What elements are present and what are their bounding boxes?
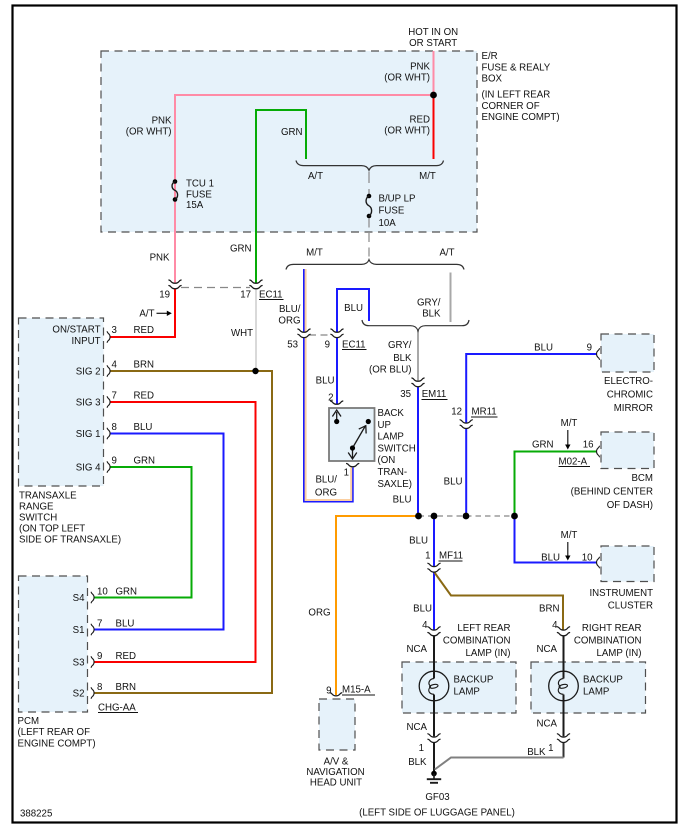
svg-text:SIG 1: SIG 1 xyxy=(76,429,101,440)
svg-text:SAXLE): SAXLE) xyxy=(378,479,412,490)
svg-text:HOT IN ON: HOT IN ON xyxy=(408,27,458,38)
svg-text:S4: S4 xyxy=(73,593,85,604)
svg-text:2: 2 xyxy=(328,393,333,404)
svg-text:35: 35 xyxy=(400,389,411,400)
svg-text:ELECTRO-: ELECTRO- xyxy=(604,376,653,387)
svg-text:BRN: BRN xyxy=(116,682,136,693)
svg-text:LAMP (IN): LAMP (IN) xyxy=(596,648,641,659)
svg-text:SWITCH: SWITCH xyxy=(19,513,57,524)
svg-text:SWITCH: SWITCH xyxy=(378,443,416,454)
svg-text:CHROMIC: CHROMIC xyxy=(607,389,653,400)
svg-text:COMBINATION: COMBINATION xyxy=(443,635,511,646)
svg-text:A/T: A/T xyxy=(308,171,323,182)
svg-text:RIGHT REAR: RIGHT REAR xyxy=(582,623,642,634)
svg-text:HEAD UNIT: HEAD UNIT xyxy=(310,778,362,789)
svg-text:S2: S2 xyxy=(73,689,85,700)
svg-text:GRN: GRN xyxy=(116,587,138,598)
svg-text:BLU: BLU xyxy=(116,619,135,630)
svg-text:17: 17 xyxy=(240,290,251,301)
svg-text:4: 4 xyxy=(552,620,558,631)
svg-text:CLUSTER: CLUSTER xyxy=(608,601,653,612)
svg-text:9: 9 xyxy=(326,686,331,697)
svg-text:MIRROR: MIRROR xyxy=(614,403,653,414)
svg-text:7: 7 xyxy=(97,619,102,630)
svg-text:SIG 4: SIG 4 xyxy=(76,463,101,474)
svg-text:OF DASH): OF DASH) xyxy=(607,500,653,511)
svg-text:WHT: WHT xyxy=(231,328,253,339)
svg-text:(OR BLU): (OR BLU) xyxy=(369,365,412,376)
svg-text:M/T: M/T xyxy=(419,171,436,182)
svg-text:GRN: GRN xyxy=(532,440,554,451)
svg-text:4: 4 xyxy=(422,620,428,631)
svg-text:M/T: M/T xyxy=(561,530,578,541)
svg-text:GRN: GRN xyxy=(230,244,252,255)
svg-text:CORNER OF: CORNER OF xyxy=(482,101,540,112)
svg-text:(BEHIND CENTER: (BEHIND CENTER xyxy=(571,486,653,497)
svg-text:M/T: M/T xyxy=(561,418,578,429)
svg-text:53: 53 xyxy=(287,340,298,351)
svg-text:CHG-AA: CHG-AA xyxy=(98,703,136,714)
svg-text:E/R: E/R xyxy=(482,51,498,62)
svg-text:10: 10 xyxy=(97,587,108,598)
svg-text:S1: S1 xyxy=(73,625,85,636)
svg-text:4: 4 xyxy=(112,360,118,371)
svg-text:EC11: EC11 xyxy=(342,340,366,351)
svg-text:NCA: NCA xyxy=(537,719,558,730)
svg-text:OR START: OR START xyxy=(409,38,457,49)
svg-text:9: 9 xyxy=(325,340,330,351)
svg-text:388225: 388225 xyxy=(20,809,52,820)
svg-text:BLK: BLK xyxy=(527,747,546,758)
svg-text:LAMP: LAMP xyxy=(583,686,609,697)
svg-text:BACKUP: BACKUP xyxy=(454,674,494,685)
svg-text:BCM: BCM xyxy=(631,473,653,484)
svg-text:9: 9 xyxy=(97,651,102,662)
svg-text:PCM: PCM xyxy=(18,716,40,727)
svg-text:EM11: EM11 xyxy=(422,389,447,400)
svg-text:UP: UP xyxy=(378,420,391,431)
svg-text:BRN: BRN xyxy=(134,360,154,371)
svg-text:SIG 2: SIG 2 xyxy=(76,367,101,378)
svg-text:GRN: GRN xyxy=(281,127,303,138)
svg-text:(LEFT SIDE OF LUGGAGE PANEL): (LEFT SIDE OF LUGGAGE PANEL) xyxy=(359,808,515,819)
svg-text:RED: RED xyxy=(116,651,136,662)
svg-text:ON/START: ON/START xyxy=(52,324,100,335)
svg-text:8: 8 xyxy=(97,682,102,693)
svg-text:BLK: BLK xyxy=(422,309,441,320)
svg-text:15A: 15A xyxy=(186,200,204,211)
svg-text:(ON TOP LEFT: (ON TOP LEFT xyxy=(19,524,85,535)
svg-text:TRANSAXLE: TRANSAXLE xyxy=(19,491,77,502)
svg-text:(LEFT REAR OF: (LEFT REAR OF xyxy=(18,727,91,738)
svg-text:(OR WHT): (OR WHT) xyxy=(384,126,430,137)
svg-text:ORG: ORG xyxy=(308,608,330,619)
svg-text:1: 1 xyxy=(419,743,424,754)
svg-text:10: 10 xyxy=(582,553,593,564)
svg-text:A/T: A/T xyxy=(439,248,454,259)
svg-text:10A: 10A xyxy=(379,218,397,229)
svg-text:1: 1 xyxy=(548,743,553,754)
svg-text:7: 7 xyxy=(112,391,117,402)
svg-text:NCA: NCA xyxy=(407,644,428,655)
svg-text:12: 12 xyxy=(451,407,462,418)
svg-text:M02-A: M02-A xyxy=(559,457,588,468)
svg-text:BLU: BLU xyxy=(393,495,412,506)
svg-text:FUSE: FUSE xyxy=(186,190,212,201)
svg-text:BRN: BRN xyxy=(539,604,559,615)
svg-text:ORG: ORG xyxy=(278,316,300,327)
svg-text:3: 3 xyxy=(112,325,117,336)
svg-text:BACKUP: BACKUP xyxy=(583,674,623,685)
svg-text:LEFT REAR: LEFT REAR xyxy=(457,623,510,634)
svg-text:BACK: BACK xyxy=(378,408,405,419)
svg-text:COMBINATION: COMBINATION xyxy=(574,635,642,646)
svg-text:BLU: BLU xyxy=(409,536,428,547)
svg-text:16: 16 xyxy=(583,440,594,451)
svg-text:19: 19 xyxy=(159,290,170,301)
svg-text:BLU/: BLU/ xyxy=(279,304,301,315)
svg-text:BLU/: BLU/ xyxy=(315,475,337,486)
svg-text:INPUT: INPUT xyxy=(71,336,100,347)
svg-text:ORG: ORG xyxy=(315,488,337,499)
svg-text:GF03: GF03 xyxy=(425,792,449,803)
svg-text:LAMP: LAMP xyxy=(454,686,480,697)
svg-text:BLU: BLU xyxy=(134,422,153,433)
svg-text:(IN LEFT REAR: (IN LEFT REAR xyxy=(482,90,551,101)
svg-text:MF11: MF11 xyxy=(439,551,463,562)
svg-text:MR11: MR11 xyxy=(472,407,497,418)
svg-text:BLK: BLK xyxy=(393,353,412,364)
svg-text:RANGE: RANGE xyxy=(19,502,54,513)
svg-text:1: 1 xyxy=(425,551,430,562)
svg-text:ENGINE COMPT): ENGINE COMPT) xyxy=(18,738,96,749)
svg-text:ENGINE COMPT): ENGINE COMPT) xyxy=(482,112,560,123)
svg-text:8: 8 xyxy=(112,422,117,433)
svg-text:BLU: BLU xyxy=(413,604,432,615)
svg-text:RED: RED xyxy=(410,115,430,126)
svg-text:BLU: BLU xyxy=(316,376,335,387)
svg-text:PNK: PNK xyxy=(150,253,170,264)
svg-text:RED: RED xyxy=(134,391,154,402)
svg-text:RED: RED xyxy=(134,325,154,336)
svg-text:BOX: BOX xyxy=(482,74,503,85)
svg-text:BLU: BLU xyxy=(344,303,363,314)
svg-text:9: 9 xyxy=(587,343,592,354)
svg-text:9: 9 xyxy=(112,456,117,467)
svg-text:NCA: NCA xyxy=(407,722,428,733)
svg-text:TRAN-: TRAN- xyxy=(378,467,408,478)
svg-text:NCA: NCA xyxy=(537,644,558,655)
svg-text:INSTRUMENT: INSTRUMENT xyxy=(589,588,653,599)
svg-text:GRY/: GRY/ xyxy=(417,298,441,309)
svg-text:PNK: PNK xyxy=(410,62,430,73)
svg-text:B/UP LP: B/UP LP xyxy=(379,194,416,205)
svg-text:GRY/: GRY/ xyxy=(388,340,412,351)
svg-text:EC11: EC11 xyxy=(259,290,283,301)
svg-text:LAMP (IN): LAMP (IN) xyxy=(465,648,510,659)
svg-text:FUSE: FUSE xyxy=(379,206,405,217)
svg-text:BLU: BLU xyxy=(541,553,560,564)
svg-text:BLU: BLU xyxy=(534,343,553,354)
svg-text:(OR WHT): (OR WHT) xyxy=(126,127,172,138)
svg-text:SIG 3: SIG 3 xyxy=(76,398,101,409)
svg-text:TCU 1: TCU 1 xyxy=(186,179,214,190)
svg-text:(OR WHT): (OR WHT) xyxy=(384,73,430,84)
svg-text:GRN: GRN xyxy=(134,456,156,467)
svg-text:SIDE OF TRANSAXLE): SIDE OF TRANSAXLE) xyxy=(19,535,121,546)
svg-text:S3: S3 xyxy=(73,658,85,669)
svg-text:(ON: (ON xyxy=(378,455,396,466)
svg-text:A/V &: A/V & xyxy=(324,757,349,768)
svg-text:BLK: BLK xyxy=(408,757,427,768)
svg-text:FUSE & REALY: FUSE & REALY xyxy=(482,62,551,73)
svg-text:M15-A: M15-A xyxy=(342,685,371,696)
svg-text:PNK: PNK xyxy=(152,116,172,127)
svg-text:BLU: BLU xyxy=(444,477,463,488)
svg-text:M/T: M/T xyxy=(306,248,323,259)
svg-text:LAMP: LAMP xyxy=(378,432,404,443)
svg-text:1: 1 xyxy=(344,468,349,479)
svg-text:NAVIGATION: NAVIGATION xyxy=(306,767,364,778)
svg-text:A/T: A/T xyxy=(139,309,154,320)
